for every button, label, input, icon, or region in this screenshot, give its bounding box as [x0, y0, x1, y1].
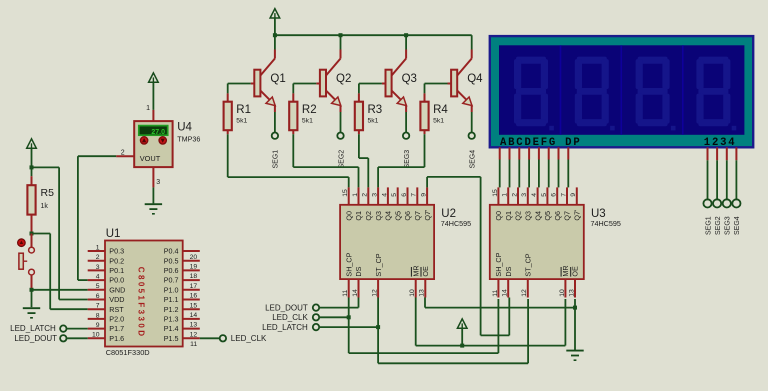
transistor Q2	[316, 50, 341, 113]
svg-text:Q3: Q3	[524, 211, 533, 221]
svg-text:74HC595: 74HC595	[591, 219, 621, 228]
svg-text:74HC595: 74HC595	[441, 219, 471, 228]
pin number 11 (U1)	[190, 341, 197, 348]
label Q3	[402, 73, 417, 85]
U3 pin 3 (Q3) stub	[527, 187, 529, 204]
pin number 16 (U1)	[190, 293, 198, 300]
U2 pin 3 (Q3) stub	[377, 187, 379, 204]
svg-text:P0.3: P0.3	[109, 247, 124, 256]
pin number 1 (U1)	[96, 244, 100, 251]
svg-text:P1.2: P1.2	[164, 305, 179, 314]
svg-text:P1.1: P1.1	[164, 295, 179, 304]
svg-text:Q0: Q0	[494, 211, 503, 221]
U2 pin 10 (MR) stub	[415, 279, 417, 297]
U2 pin 6 (Q6) stub	[407, 187, 409, 204]
junction button bottom / GND node	[30, 288, 34, 292]
pin number 11 (U2)	[342, 290, 349, 297]
svg-text:Q7': Q7'	[423, 209, 432, 221]
label SEG4 (display)	[734, 216, 741, 235]
U4 pin 2 stub	[116, 155, 134, 157]
wire Q1 base to R1	[228, 83, 251, 85]
svg-text:SEG2: SEG2	[715, 216, 722, 235]
pin name P1.3 (U1)	[164, 315, 179, 324]
label SEG3 (emitter)	[404, 150, 411, 169]
svg-text:Q1: Q1	[504, 211, 513, 221]
terminal LED_CLK (right)	[200, 334, 267, 343]
svg-text:OE: OE	[571, 266, 580, 277]
pin number 10 (U2)	[409, 289, 416, 297]
svg-text:2: 2	[121, 149, 125, 156]
label C8051F330D	[106, 348, 150, 357]
terminal LED_DOUT (middle)	[265, 303, 319, 312]
svg-text:11: 11	[190, 341, 197, 348]
label R4	[433, 104, 448, 116]
terminal SEG1 (emitter)	[272, 133, 278, 139]
pin name P1.0 (U1)	[164, 285, 179, 294]
terminal LED_LATCH (left)	[10, 324, 88, 333]
U3 pin 15 (Q0) stub	[497, 187, 499, 204]
svg-text:3: 3	[96, 264, 100, 271]
display digit separator 1	[560, 45, 562, 135]
junction R5 bottom / RST node	[30, 232, 34, 236]
display digit separator 3	[682, 45, 684, 135]
label 74HC595 (U2)	[441, 219, 471, 228]
pin number 3 (U4)	[156, 179, 160, 186]
wire U4 pin 3 to ground	[152, 187, 154, 203]
svg-text:SEG4: SEG4	[734, 216, 741, 235]
sensor U4 body	[134, 121, 172, 167]
pin name DS (U3)	[504, 266, 513, 276]
wire MR chain	[416, 298, 566, 346]
pin name Q7 (U2)	[413, 211, 422, 221]
pin number 11 (U3)	[492, 290, 499, 297]
svg-text:ABCDEFG DP: ABCDEFG DP	[500, 137, 581, 149]
svg-text:Q6: Q6	[403, 211, 412, 221]
pin number 10 (U3)	[559, 289, 566, 297]
svg-text:RST: RST	[109, 305, 124, 314]
pin name GND (U1)	[109, 285, 125, 294]
resistor R1	[224, 93, 232, 134]
wire junction to VDD branch corner	[32, 166, 60, 168]
label 74HC595 (U3)	[591, 219, 621, 228]
pin name P1.5 (U1)	[164, 334, 179, 343]
U1 pin 3 stub	[88, 269, 105, 271]
pin name Q7 (U3)	[563, 211, 572, 221]
wire rail to Q4 collector	[471, 35, 473, 49]
label U2	[441, 208, 456, 220]
U3 pin 2 (Q2) stub	[517, 187, 519, 204]
svg-text:P1.7: P1.7	[109, 324, 124, 333]
svg-text:10: 10	[559, 289, 566, 297]
U2 pin 5 (Q5) stub	[397, 187, 399, 204]
svg-text:8: 8	[96, 312, 100, 319]
wire Q3 base to R3	[359, 83, 382, 85]
svg-text:2: 2	[362, 193, 369, 197]
pin name ST_CP (U2)	[374, 253, 383, 276]
wire rail to Q1 collector	[274, 35, 276, 49]
wire display B to U3	[509, 160, 511, 188]
svg-text:7: 7	[96, 303, 100, 310]
U4 pin 1 stub	[152, 110, 154, 121]
U4 up button	[140, 137, 147, 144]
svg-text:Q4: Q4	[467, 73, 483, 85]
wire RST branch horizontal	[32, 233, 51, 235]
svg-text:Q7: Q7	[413, 211, 422, 221]
svg-text:1: 1	[96, 244, 100, 251]
pin number 12 (U2)	[372, 289, 379, 297]
junction R5 top / VDD branch	[30, 165, 34, 169]
svg-text:SH_CP: SH_CP	[494, 252, 503, 276]
pin number 3 (U2)	[372, 193, 379, 197]
pin name OE (U2)	[421, 266, 430, 277]
display pin A stub	[499, 147, 501, 159]
wire display G to U3	[558, 160, 560, 188]
wire U2 Q7' serial out	[427, 177, 509, 336]
resistor R5	[27, 167, 35, 233]
ground (below U4)	[145, 204, 162, 214]
pin number 5 (U1)	[96, 283, 100, 290]
svg-text:LED_CLK: LED_CLK	[231, 334, 267, 343]
U3 pin 6 (Q6) stub	[556, 187, 558, 204]
svg-text:P0.1: P0.1	[109, 266, 124, 275]
pin number 14 (U3)	[502, 289, 509, 297]
U4 VOUT pin name	[140, 154, 161, 163]
U3 pin 5 (Q5) stub	[546, 187, 548, 204]
svg-text:P0.7: P0.7	[164, 276, 179, 285]
pin name Q3 (U3)	[524, 211, 533, 221]
wire display digit 4 to terminal	[735, 160, 737, 200]
label SEG2 (display)	[715, 216, 722, 235]
svg-text:Q1: Q1	[270, 73, 285, 85]
pin name Q6 (U3)	[553, 211, 562, 221]
display digit pin labels 1234	[704, 137, 737, 149]
wire to U1 pin 4 P0.0	[78, 279, 88, 281]
svg-text:ST_CP: ST_CP	[374, 253, 383, 276]
display pin 1 stub	[707, 147, 709, 160]
terminal LED_LATCH (middle)	[262, 323, 319, 332]
svg-text:1: 1	[352, 193, 359, 197]
label Q4	[467, 73, 483, 85]
U1 pin 7 stub	[88, 308, 105, 310]
U2 pin 1 (Q1) stub	[358, 187, 360, 204]
pin number 6 (U2)	[401, 193, 408, 197]
svg-text:P1.4: P1.4	[164, 324, 179, 333]
svg-text:3: 3	[372, 193, 379, 197]
svg-text:SEG3: SEG3	[404, 150, 411, 169]
svg-text:R3: R3	[368, 104, 383, 116]
U1 pin 14 stub	[183, 308, 200, 310]
svg-text:4: 4	[381, 193, 388, 197]
U3 pin 12 (ST_CP) stub	[527, 279, 529, 297]
svg-text:13: 13	[568, 289, 575, 297]
wire VCC arrow to rail	[274, 18, 276, 35]
svg-text:5k1: 5k1	[236, 118, 247, 125]
svg-text:LED_DOUT: LED_DOUT	[265, 303, 308, 312]
wire Q3 emitter to terminal	[405, 112, 407, 132]
pin number 4 (U3)	[531, 193, 538, 197]
wire display digit 3 to terminal	[726, 160, 728, 200]
pin number 12 (U1)	[190, 331, 198, 338]
wire Q2 emitter to terminal	[340, 112, 342, 132]
pin name Q7' (U3)	[573, 209, 582, 221]
U2 pin 14 (DS) stub	[358, 279, 360, 297]
wire to U1 pin 7 RST	[50, 308, 87, 310]
wire vertical VDD branch	[58, 167, 60, 299]
pin number 2 (U4)	[121, 149, 125, 156]
svg-text:Q5: Q5	[393, 211, 402, 221]
pin number 18 (U1)	[190, 273, 198, 280]
U2 pin 4 (Q4) stub	[387, 187, 389, 204]
U1 pin 9 stub	[88, 328, 105, 330]
pin name ST_CP (U3)	[524, 253, 533, 276]
U1 pin 19 stub	[183, 260, 200, 262]
svg-text:1234: 1234	[704, 137, 737, 149]
wire to U1 pin 5 GND	[32, 289, 88, 291]
label U3	[591, 208, 606, 220]
wire display D to U3	[528, 160, 530, 188]
junction rail col 3	[404, 33, 408, 37]
svg-text:P1.0: P1.0	[164, 285, 179, 294]
pin number 13 (U1)	[190, 322, 198, 329]
pin name Q2 (U2)	[364, 211, 373, 221]
terminal LED_CLK (middle)	[272, 313, 319, 322]
pin name Q0 (U2)	[344, 211, 353, 221]
svg-text:4: 4	[531, 193, 538, 197]
label SEG2 (emitter)	[338, 150, 345, 169]
wire display DP to U3	[567, 160, 569, 188]
junction MR / VCC	[460, 344, 464, 348]
U3 pin 14 (DS) stub	[507, 279, 509, 297]
junction OE / ground	[573, 306, 577, 310]
svg-text:15: 15	[342, 189, 349, 197]
wire display A to U3	[499, 160, 501, 188]
U2 pin 9 (Q7') stub	[426, 187, 428, 204]
wire display E to U3	[538, 160, 540, 188]
value 5k1 (R2)	[302, 118, 313, 125]
wire R3 to U2 Q2	[359, 134, 368, 187]
label R2	[302, 104, 317, 116]
svg-text:Q7: Q7	[563, 211, 572, 221]
wire U3 OE to ground	[574, 299, 576, 350]
pin number 19 (U1)	[190, 264, 198, 271]
svg-text:15: 15	[492, 189, 499, 197]
display segment pin labels ABCDEFG DP	[500, 137, 581, 149]
resistor R2	[289, 93, 297, 134]
display digit 4 segments	[696, 57, 736, 131]
svg-text:VDD: VDD	[109, 295, 124, 304]
svg-text:7: 7	[560, 193, 567, 197]
pin name P0.5 (U1)	[164, 256, 179, 265]
svg-text:P0.4: P0.4	[164, 247, 179, 256]
U1 pin 20 stub	[183, 250, 200, 252]
svg-text:Q1: Q1	[354, 211, 363, 221]
svg-text:12: 12	[372, 289, 379, 297]
label SEG3 (display)	[725, 216, 732, 235]
pin number 6 (U1)	[96, 293, 100, 300]
pin name P0.2 (U1)	[109, 256, 124, 265]
pin number 7 (U2)	[411, 193, 418, 197]
wire R1 top	[227, 84, 229, 94]
U2 pin 12 (ST_CP) stub	[377, 279, 379, 297]
pin number 9 (U3)	[570, 193, 577, 197]
wire LED_CLK to U2 SH_CP	[319, 316, 349, 318]
wire display digit 2 to terminal	[716, 160, 718, 200]
U1 pin 6 stub	[88, 299, 105, 301]
svg-text:Q2: Q2	[514, 211, 523, 221]
U2 pin 2 (Q2) stub	[367, 187, 369, 204]
pin number 2 (U3)	[511, 193, 518, 197]
label SEG4 (emitter)	[470, 150, 477, 169]
pin name P0.1 (U1)	[109, 266, 124, 275]
svg-text:2: 2	[96, 254, 100, 261]
wire OE chain	[425, 298, 575, 308]
pin number 17 (U1)	[190, 283, 198, 290]
svg-text:10: 10	[92, 332, 100, 339]
svg-text:14: 14	[502, 289, 509, 297]
svg-text:9: 9	[421, 193, 428, 197]
svg-text:C8051F330D: C8051F330D	[136, 267, 145, 339]
wire to U1 pin 6 VDD	[59, 299, 88, 301]
wire R4 top	[424, 84, 426, 94]
pin name Q4 (U2)	[384, 211, 393, 221]
label R3	[368, 104, 383, 116]
label Q2	[336, 73, 351, 85]
power rail wire	[275, 34, 472, 36]
label U4	[177, 122, 192, 134]
wire ST_CP chain	[378, 298, 528, 364]
svg-text:MR: MR	[411, 265, 420, 276]
svg-text:5: 5	[541, 193, 548, 197]
U3 pin 9 (Q7') stub	[576, 187, 578, 204]
svg-text:P0.5: P0.5	[164, 256, 179, 265]
pin number 3 (U3)	[521, 193, 528, 197]
terminal SEG3 (display)	[723, 199, 731, 207]
svg-text:SEG1: SEG1	[705, 216, 712, 235]
svg-text:6: 6	[96, 293, 100, 300]
wire R3 top	[358, 84, 360, 94]
svg-text:U1: U1	[106, 228, 121, 240]
svg-text:5: 5	[391, 193, 398, 197]
wire R2 to U2 Q1	[293, 134, 358, 187]
wire Q2 base to R2	[293, 83, 316, 85]
pin number 15 (U2)	[342, 189, 349, 197]
svg-text:LED_LATCH: LED_LATCH	[10, 324, 56, 333]
svg-text:1: 1	[502, 193, 509, 197]
pin number 5 (U3)	[541, 193, 548, 197]
U1 pin 16 stub	[183, 289, 200, 291]
wire rail to Q2 collector	[340, 35, 342, 49]
svg-text:DS: DS	[354, 266, 363, 276]
pin number 13 (U3)	[568, 289, 575, 297]
svg-text:Q2: Q2	[364, 211, 373, 221]
U1 internal part name	[136, 267, 145, 339]
pin number 9 (U2)	[421, 193, 428, 197]
svg-text:Q4: Q4	[533, 211, 542, 221]
wire RST branch vertical	[49, 234, 51, 310]
pin name P0.3 (U1)	[109, 247, 124, 256]
U4 down button	[159, 137, 166, 144]
U1 pin 5 stub	[88, 289, 105, 291]
junction LED_CLK / SH_CP	[347, 315, 351, 319]
wire Q1 emitter to terminal	[274, 112, 276, 132]
display pin 2 stub	[716, 147, 718, 160]
U1 pin 2 stub	[88, 260, 105, 262]
pin number 3 (U1)	[96, 264, 100, 271]
button interactive marker	[18, 239, 26, 247]
wire R4 to U2 Q3	[378, 134, 424, 187]
svg-text:Q4: Q4	[384, 211, 393, 221]
pin name Q3 (U2)	[374, 211, 383, 221]
svg-text:OE: OE	[421, 266, 430, 277]
pin name RST (U1)	[109, 305, 124, 314]
pin number 1 (U4)	[146, 105, 150, 112]
push button SW1	[19, 234, 35, 290]
pin number 2 (U2)	[362, 193, 369, 197]
junction rail col 1	[273, 33, 277, 37]
pin number 10 (U1)	[92, 332, 100, 339]
svg-text:P0.2: P0.2	[109, 256, 124, 265]
svg-text:DS: DS	[504, 266, 513, 276]
U3 pin 4 (Q4) stub	[537, 187, 539, 204]
display digit separator 2	[620, 45, 622, 135]
svg-text:Q5: Q5	[543, 211, 552, 221]
svg-text:R4: R4	[433, 104, 448, 116]
label SEG1 (display)	[705, 216, 712, 235]
terminal SEG4 (display)	[732, 199, 740, 207]
ground (below U3)	[566, 351, 583, 361]
pin name P0.6 (U1)	[164, 266, 179, 275]
display digit 1 segments	[514, 57, 554, 131]
U3 pin 7 (Q7) stub	[566, 187, 568, 204]
display pin 4 stub	[735, 147, 737, 160]
svg-text:14: 14	[352, 289, 359, 297]
pin number 2 (U1)	[96, 254, 100, 261]
value 5k1 (R4)	[433, 118, 444, 125]
pin number 15 (U3)	[492, 189, 499, 197]
svg-text:5k1: 5k1	[302, 118, 313, 125]
svg-text:Q6: Q6	[553, 211, 562, 221]
label U1	[106, 228, 121, 240]
pin name P1.1 (U1)	[164, 295, 179, 304]
display pin G stub	[558, 147, 560, 159]
pin name MR (U2)	[411, 265, 420, 276]
label R1	[236, 104, 251, 116]
display pin DP stub	[567, 147, 569, 159]
power symbol VCC (MR pull-up)	[457, 319, 467, 328]
svg-text:SEG2: SEG2	[338, 150, 345, 169]
svg-text:Q3: Q3	[374, 211, 383, 221]
U4 LCD readout 27.0	[139, 126, 168, 136]
wire rail to Q3 collector	[405, 35, 407, 49]
U4 pin 3 stub	[152, 167, 154, 187]
value 1k	[41, 203, 49, 210]
wire display C to U3	[518, 160, 520, 188]
transistor Q1	[251, 50, 276, 113]
svg-text:P1.5: P1.5	[164, 334, 179, 343]
pin name OE (U3)	[571, 266, 580, 277]
svg-text:Q7': Q7'	[573, 209, 582, 221]
svg-text:C8051F330D: C8051F330D	[106, 348, 150, 357]
pin name SH_CP (U3)	[494, 252, 503, 276]
U1 pin 1 stub	[88, 250, 105, 252]
svg-text:1: 1	[146, 105, 150, 112]
7-segment display module body	[490, 36, 753, 147]
svg-text:ST_CP: ST_CP	[524, 253, 533, 276]
svg-text:4: 4	[96, 274, 100, 281]
wire LED_LATCH to U2 ST_CP	[319, 326, 378, 328]
svg-text:9: 9	[96, 322, 100, 329]
pin name P0.4 (U1)	[164, 247, 179, 256]
